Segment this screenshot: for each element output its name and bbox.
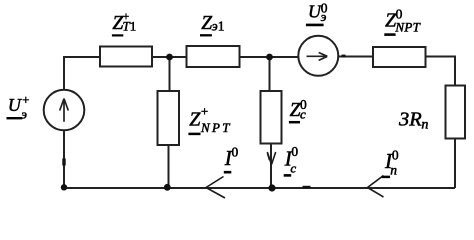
svg-text:Z: Z bbox=[189, 109, 201, 131]
svg-text:0: 0 bbox=[232, 145, 239, 160]
svg-text:NPT: NPT bbox=[200, 120, 230, 135]
svg-text:T1: T1 bbox=[123, 19, 137, 34]
svg-text:3R: 3R bbox=[398, 108, 422, 130]
svg-text:c: c bbox=[290, 161, 296, 176]
svg-text:c: c bbox=[300, 106, 306, 121]
svg-text:э: э bbox=[321, 9, 327, 24]
svg-text:0: 0 bbox=[392, 148, 399, 163]
svg-text:+: + bbox=[22, 93, 29, 107]
svg-text:э1: э1 bbox=[212, 19, 225, 34]
svg-text:Z: Z bbox=[290, 100, 301, 121]
svg-text:NPT: NPT bbox=[394, 20, 420, 35]
svg-text:Z: Z bbox=[201, 13, 212, 34]
svg-text:n: n bbox=[390, 163, 397, 178]
svg-text:n: n bbox=[421, 118, 428, 133]
svg-text:0: 0 bbox=[291, 144, 298, 159]
svg-text:+: + bbox=[201, 103, 208, 118]
svg-text:U: U bbox=[8, 95, 22, 115]
